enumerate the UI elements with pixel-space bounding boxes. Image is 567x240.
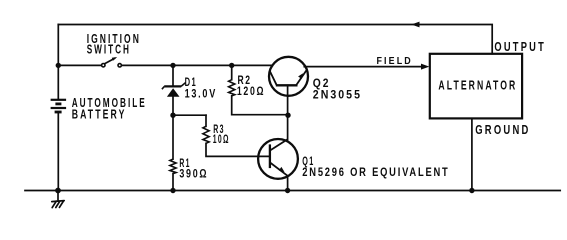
svg-text:D1: D1 — [185, 77, 198, 89]
svg-text:2N3055: 2N3055 — [313, 89, 362, 101]
svg-text:GROUND: GROUND — [475, 123, 530, 137]
svg-text:FIELD: FIELD — [377, 55, 413, 67]
svg-text:390Ω: 390Ω — [179, 168, 208, 180]
svg-text:13.0V: 13.0V — [185, 89, 217, 101]
svg-text:BATTERY: BATTERY — [72, 107, 127, 121]
svg-text:Q2: Q2 — [313, 78, 331, 90]
svg-text:10Ω: 10Ω — [213, 134, 230, 146]
svg-text:OUTPUT: OUTPUT — [494, 40, 546, 54]
svg-text:2N5296 OR EQUIVALENT: 2N5296 OR EQUIVALENT — [302, 167, 449, 179]
svg-text:ALTERNATOR: ALTERNATOR — [438, 79, 517, 93]
svg-text:SWITCH: SWITCH — [87, 43, 131, 57]
svg-text:120Ω: 120Ω — [237, 86, 265, 98]
